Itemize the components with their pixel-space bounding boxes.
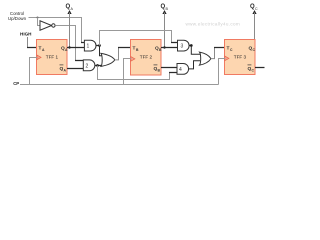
AND gate 1 bbox=[84, 40, 96, 51]
node junction QA bbox=[68, 46, 70, 48]
wire AND2 out under TFF2 to AND4 bottom input bbox=[98, 66, 170, 80]
inverter U1 bbox=[40, 21, 52, 30]
wire QbarC stub bbox=[255, 67, 265, 69]
wire control branch to inverter input bbox=[38, 18, 41, 26]
svg-text:3: 3 bbox=[181, 44, 184, 50]
wire QB output to AND3 bottom input bbox=[161, 47, 178, 49]
wire AND3 output bbox=[189, 45, 192, 47]
wire clock riser TFF2 bbox=[124, 59, 132, 85]
wire QbarB output to AND4 top input bbox=[161, 67, 178, 69]
node junction QB bbox=[163, 46, 165, 48]
flip-flop TFF3 bbox=[225, 40, 256, 75]
AND gate 4 bbox=[177, 64, 189, 75]
wire AND1 out cascade to AND3 top input bbox=[100, 31, 172, 46]
wire QA output to AND1 bottom input bbox=[67, 47, 85, 49]
wire CP clock line bbox=[20, 84, 219, 86]
wire AND1 output bbox=[96, 45, 100, 47]
wire AND3 out to OR2 top input bbox=[191, 46, 200, 55]
wire control entry to AND1 top input bbox=[81, 42, 85, 44]
svg-text:HIGH: HIGH bbox=[20, 32, 32, 37]
svg-text:C: C bbox=[255, 7, 258, 11]
wire clock riser TFF1 bbox=[30, 58, 38, 85]
flip-flop TFF1 bbox=[37, 40, 69, 75]
wire QbarA output to AND2 bottom input bbox=[67, 68, 84, 70]
wire inverter output to AND2 top input bbox=[55, 26, 75, 61]
wire HIGH to TA input bbox=[27, 37, 29, 48]
svg-text:TFF 1: TFF 1 bbox=[46, 54, 59, 59]
wire QA terminal riser bbox=[69, 13, 71, 48]
node Control Up/Down label bbox=[8, 11, 27, 21]
wire control Up/Down line bbox=[29, 18, 82, 43]
wire clock riser TFF3 bbox=[219, 59, 226, 85]
node junction AND1 out bbox=[98, 44, 101, 47]
svg-text:Up/Down: Up/Down bbox=[8, 16, 27, 21]
wire QC terminal riser bbox=[254, 13, 256, 41]
OR gate 1 bbox=[101, 53, 115, 66]
flip-flop TFF2 bbox=[131, 40, 163, 76]
svg-text:CP: CP bbox=[13, 81, 19, 86]
svg-text:TFF 3: TFF 3 bbox=[234, 54, 247, 59]
wire AND4 output to OR2 bottom input bbox=[189, 61, 200, 69]
node junction on control line bbox=[37, 17, 39, 19]
node junction AND3 out bbox=[190, 44, 193, 47]
svg-text:1: 1 bbox=[87, 44, 90, 50]
wire QB terminal riser bbox=[164, 13, 166, 48]
AND gate 2 bbox=[83, 60, 95, 71]
svg-text:www.electrically4u.com: www.electrically4u.com bbox=[186, 21, 241, 26]
OR gate 2 bbox=[200, 52, 212, 65]
svg-text:2: 2 bbox=[86, 63, 89, 69]
wire OR2 output to TC input bbox=[211, 48, 215, 59]
node junction AND2 out bbox=[96, 64, 99, 67]
wire OR1 output to TB input bbox=[115, 48, 119, 60]
wire AND2 output to OR1 bottom input bbox=[95, 65, 103, 67]
svg-text:TFF 2: TFF 2 bbox=[140, 54, 153, 59]
svg-text:4: 4 bbox=[179, 67, 182, 73]
AND gate 3 bbox=[178, 40, 190, 51]
wire AND1 out to OR1 top input bbox=[100, 46, 103, 56]
